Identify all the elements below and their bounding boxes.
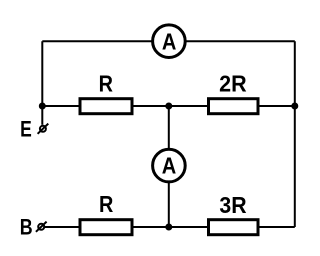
svg-text:A: A (162, 152, 177, 178)
wire right vertical (294, 41, 296, 227)
wire middle branch upper (168, 106, 170, 149)
resistor R3 (80, 220, 132, 235)
ammeter A1 (top) (153, 25, 186, 58)
wire middle row right segment (259, 105, 295, 107)
wire top left segment (42, 40, 151, 42)
svg-text:R: R (99, 70, 114, 96)
wire bottom row left segment (45, 226, 79, 228)
wire middle row center segment (134, 105, 208, 107)
resistor R1 (80, 99, 132, 114)
terminal E symbol (38, 124, 49, 134)
node right (291, 103, 298, 110)
svg-text:B: B (20, 214, 33, 239)
svg-text:A: A (162, 29, 177, 55)
terminal B symbol (36, 222, 47, 232)
svg-text:2R: 2R (219, 70, 247, 96)
resistor R4 (3R) (209, 220, 259, 235)
svg-text:R: R (99, 191, 114, 217)
node center top (165, 103, 172, 110)
svg-text:3R: 3R (219, 192, 247, 218)
wire middle row left segment (42, 105, 78, 107)
svg-text:E: E (20, 116, 32, 141)
ammeter A2 (middle) (153, 149, 186, 182)
wire left vertical (E stub to top-left corner) (41, 41, 43, 125)
wire middle branch lower (168, 182, 170, 227)
wire top right segment (186, 40, 294, 42)
wire bottom row right segment (259, 226, 295, 228)
resistor R2 (2R) (209, 99, 259, 114)
node center bottom (165, 224, 172, 231)
node left (junction at E) (39, 103, 46, 110)
wire bottom row center segment (134, 226, 208, 228)
